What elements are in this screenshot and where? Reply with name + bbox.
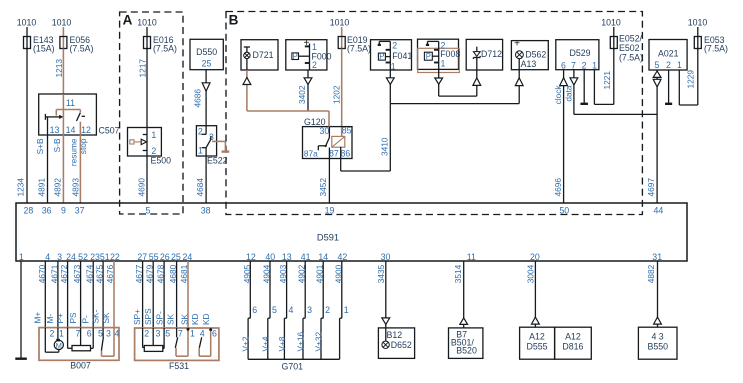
svg-text:4676: 4676 — [105, 264, 115, 283]
G120 pin 85 — [342, 126, 352, 136]
A021 pin 2 — [666, 60, 671, 70]
F531 switch KD — [199, 328, 212, 356]
D562 plus mark — [514, 38, 520, 49]
B007 motor circuit — [45, 328, 60, 353]
wire D591 pin 1 to ground — [20, 261, 22, 359]
svg-text:2: 2 — [144, 329, 149, 339]
svg-text:4697: 4697 — [646, 178, 656, 197]
pressure switch F041 box — [371, 40, 412, 70]
svg-text:3: 3 — [155, 329, 160, 339]
svg-text:D555: D555 — [526, 342, 547, 352]
svg-text:4686: 4686 — [193, 89, 203, 108]
svg-text:SK: SK — [165, 313, 175, 325]
function label P- — [80, 315, 90, 324]
function label KD a — [190, 313, 200, 325]
svg-text:4679: 4679 — [145, 264, 155, 283]
wire label 4686 — [193, 89, 203, 108]
connector arrow clock wire — [560, 78, 568, 86]
function label V+2 — [241, 336, 251, 351]
fuse E143 (15A) — [24, 35, 55, 54]
fuse E019 (7.5A) — [338, 35, 371, 54]
D591 top pin 38 — [201, 206, 211, 216]
D562 sub label A13 — [521, 59, 537, 69]
svg-text:20: 20 — [530, 252, 540, 262]
D721 lamp symbol — [244, 47, 250, 70]
D591 bottom pin 20 (21) — [530, 252, 540, 262]
F041 label — [392, 51, 412, 61]
svg-text:5: 5 — [165, 329, 170, 339]
connector D550 box — [190, 39, 223, 69]
svg-text:4690: 4690 — [137, 178, 147, 197]
dashed box A — [120, 12, 183, 214]
wire label 1202 — [332, 85, 342, 104]
wire label 4675 — [95, 264, 105, 283]
G701 pin 2 — [325, 305, 330, 315]
wire 4670 D591 to B007 — [44, 261, 46, 328]
svg-text:1010: 1010 — [137, 18, 157, 28]
C507 pin 13 — [50, 125, 60, 135]
svg-text:P: P — [379, 52, 384, 61]
svg-text:4672: 4672 — [59, 264, 69, 283]
F041 pin 2 — [392, 41, 397, 51]
svg-text:6: 6 — [87, 328, 92, 338]
F531 pin 4 — [200, 329, 205, 339]
switch C507 box — [39, 94, 120, 136]
wire D721 to relay node — [246, 70, 248, 111]
D529 pin 7 — [571, 60, 576, 70]
svg-text:24: 24 — [66, 252, 76, 262]
G701 pin 5 — [272, 305, 277, 315]
wire 4676 D591 to B007 pin 4 — [113, 261, 115, 356]
wire label 3514 — [453, 264, 463, 283]
wire 3452 G120 pin 87 to D591 pin 19 — [328, 159, 330, 204]
svg-text:KD: KD — [201, 313, 211, 325]
svg-text:D550: D550 — [196, 47, 217, 57]
F000 label — [312, 52, 332, 62]
svg-text:4: 4 — [115, 328, 120, 338]
svg-text:A: A — [123, 13, 133, 28]
lamp B12/D652 box — [378, 328, 414, 359]
G701 pin 5 jog — [268, 318, 270, 359]
G120 relay coil — [332, 136, 345, 147]
svg-text:25: 25 — [171, 252, 181, 262]
E500 internal contact — [130, 139, 147, 144]
svg-text:B: B — [229, 13, 239, 28]
svg-text:S-B: S-B — [52, 138, 62, 152]
wire label 4678 — [156, 264, 166, 283]
svg-text:3: 3 — [57, 252, 62, 262]
F000 internal symbol — [292, 44, 310, 71]
svg-text:data: data — [564, 85, 574, 102]
svg-text:25: 25 — [202, 59, 212, 69]
G701 pin 6 jog — [248, 318, 250, 359]
svg-text:1229: 1229 — [686, 70, 696, 89]
svg-text:6: 6 — [561, 60, 566, 70]
wire label 1217 — [138, 59, 148, 78]
function label S+B — [35, 138, 45, 154]
G120 pin 30 — [320, 126, 330, 136]
D591 bottom pin 24 (12) — [183, 252, 193, 262]
D529 pin 1 — [592, 60, 597, 70]
D591 bottom pin 40 (14) — [265, 252, 275, 262]
svg-text:A13: A13 — [521, 59, 537, 69]
function label resume — [68, 138, 78, 166]
svg-text:SK: SK — [179, 313, 189, 325]
unit A12/D555 box — [520, 327, 555, 359]
svg-text:V+2: V+2 — [241, 336, 251, 351]
svg-text:4674: 4674 — [85, 264, 95, 283]
wire label 4679 — [145, 264, 155, 283]
svg-text:41: 41 — [301, 252, 311, 262]
B007 pin 7 — [76, 328, 81, 338]
wire label 4673 — [72, 264, 82, 283]
F531 pin 5 — [165, 329, 170, 339]
node 1010 feed 1 — [17, 18, 37, 51]
svg-text:E500: E500 — [151, 156, 172, 166]
wire node F041 to D562 — [390, 103, 519, 105]
C507 pin 11 — [66, 98, 75, 108]
G701 pin 4 jog — [284, 318, 286, 359]
B520 label — [456, 346, 477, 356]
wire label 4891 — [37, 178, 47, 197]
svg-text:1: 1 — [344, 305, 349, 315]
svg-text:B007: B007 — [70, 361, 91, 371]
D591 top pin 50 — [559, 206, 569, 216]
wire label 3004 — [526, 264, 536, 283]
svg-text:P+: P+ — [55, 313, 65, 324]
svg-text:13: 13 — [282, 252, 292, 262]
D591 bottom pin 13 (15) — [282, 252, 292, 262]
dashed box B — [226, 12, 642, 215]
svg-text:12: 12 — [81, 125, 91, 135]
connector arrow D562 wire — [515, 78, 523, 86]
wire 4900 D591 to G701 — [341, 261, 343, 318]
G701 common bus — [248, 359, 340, 371]
D591 top pin 28 — [24, 206, 34, 216]
svg-text:1: 1 — [198, 146, 203, 156]
C507 internal wire from pin 11 — [62, 94, 64, 135]
svg-text:S+B: S+B — [35, 138, 45, 154]
F000 pin 1 — [312, 42, 317, 52]
F008 highlight box — [418, 48, 460, 72]
D591 bottom pin 26 (10) — [160, 252, 170, 262]
svg-text:42: 42 — [338, 252, 348, 262]
G701 pin 3 jog — [303, 318, 305, 359]
svg-text:1: 1 — [312, 42, 317, 52]
B007 pin 4 — [115, 328, 120, 338]
connector arrows A021 pin5 — [653, 71, 661, 87]
actuator B007 box — [39, 328, 119, 371]
svg-text:4901: 4901 — [315, 264, 325, 283]
svg-text:31: 31 — [652, 252, 662, 262]
D591 bottom pin 42 (18) — [338, 252, 348, 262]
svg-text:51: 51 — [100, 252, 110, 262]
function label V+16 — [296, 332, 306, 352]
svg-text:6: 6 — [252, 305, 257, 315]
svg-text:52: 52 — [78, 252, 88, 262]
wire 4902 D591 to G701 — [304, 261, 306, 318]
E500 pin 2 — [151, 146, 156, 156]
connector arrow D712 wire — [473, 78, 481, 86]
E500 internal wire — [146, 128, 148, 157]
svg-text:V+32: V+32 — [314, 332, 324, 352]
G120 pin 87a — [304, 148, 318, 158]
E522 pin 3 — [209, 132, 214, 142]
svg-text:3514: 3514 — [453, 264, 463, 283]
switch E522 box — [196, 126, 227, 166]
svg-text:SK-: SK- — [90, 309, 100, 323]
svg-text:26: 26 — [160, 252, 170, 262]
svg-text:E522: E522 — [207, 156, 228, 166]
svg-text:4681: 4681 — [179, 264, 189, 283]
svg-text:4904: 4904 — [262, 264, 272, 283]
control unit D591 box — [16, 203, 687, 261]
function label V+8 — [277, 336, 287, 351]
F041 internal symbol — [378, 41, 391, 70]
D529 pin 2 — [582, 60, 587, 70]
wire label 4893 — [71, 178, 81, 197]
svg-text:13: 13 — [50, 125, 60, 135]
function label SK — [179, 313, 189, 325]
D591 top pin 19 — [325, 206, 335, 216]
svg-text:40: 40 — [265, 252, 275, 262]
function label KD b — [201, 313, 211, 325]
D591 bottom pin 4 (1) — [45, 252, 50, 262]
B12 lamp symbol — [382, 328, 389, 349]
B007 motor M — [54, 340, 63, 350]
B007 pin 6 — [87, 328, 92, 338]
svg-text:B550: B550 — [648, 342, 669, 352]
C507 pin 12 — [81, 125, 91, 135]
svg-text:F041: F041 — [392, 51, 412, 61]
svg-text:14: 14 — [318, 252, 328, 262]
F041 pin 1 — [391, 61, 396, 71]
svg-text:1: 1 — [677, 60, 682, 70]
wire data D529 pin7 — [574, 70, 657, 115]
svg-text:2: 2 — [151, 146, 156, 156]
svg-text:1202: 1202 — [332, 85, 342, 104]
D712 zener diode symbol — [473, 47, 480, 70]
C507 internal brown branch — [56, 110, 80, 116]
wire label 4684 — [195, 178, 205, 197]
svg-text:9: 9 — [61, 206, 66, 216]
svg-text:D529: D529 — [569, 48, 590, 58]
F008 label — [440, 49, 460, 59]
F531 pin 1 — [190, 329, 195, 339]
D591 top pin 9 — [61, 206, 66, 216]
svg-text:55: 55 — [149, 252, 159, 262]
wire 4891 C507 pin13 to D591 pin 36 — [47, 117, 49, 203]
wire F008 to D712 node — [439, 69, 477, 96]
C507 pin 14 — [66, 125, 76, 135]
svg-text:11: 11 — [467, 252, 476, 262]
E500 pin ticks — [143, 135, 147, 151]
F531 pin 7 — [178, 329, 183, 339]
svg-text:1010: 1010 — [52, 18, 72, 28]
svg-text:E502: E502 — [619, 43, 640, 53]
B007 pin 5 — [98, 328, 103, 338]
D591 bottom pin 51 (6) — [100, 252, 110, 262]
wire 4674 D591 to B007 — [92, 261, 94, 328]
wire label 4882 — [646, 264, 656, 283]
D562 lamp symbol — [516, 51, 524, 70]
svg-text:2: 2 — [312, 60, 317, 70]
wire 4903 D591 to G701 — [286, 261, 288, 318]
E522 switch blade — [206, 136, 211, 148]
wire 4697 A021 pin5 to D591 pin 44 — [656, 70, 658, 203]
E522 pin 2 — [198, 127, 203, 137]
wire label 4903 — [278, 264, 288, 283]
connector arrow D721 wire — [243, 78, 251, 85]
svg-text:A12: A12 — [565, 331, 581, 341]
connector arrow wire 3402 — [304, 78, 312, 85]
svg-text:4680: 4680 — [168, 264, 178, 283]
svg-text:4 3: 4 3 — [651, 331, 663, 341]
B007 pin 2 — [49, 328, 54, 338]
function label stop — [78, 138, 88, 154]
connector arrow wire 4882 — [654, 317, 662, 324]
wire label 4696 — [553, 178, 563, 197]
D562 label — [525, 49, 546, 59]
wire label 4676 — [105, 264, 115, 283]
svg-text:23: 23 — [90, 252, 100, 262]
svg-text:1010: 1010 — [601, 18, 621, 28]
svg-text:7: 7 — [178, 329, 183, 339]
svg-text:B12: B12 — [387, 330, 403, 340]
node 1010 feed 5 — [601, 18, 621, 51]
B007 switch SK — [101, 328, 114, 357]
svg-text:C507: C507 — [99, 126, 120, 136]
svg-text:KD: KD — [190, 313, 200, 325]
D591 bottom pin 23 (5) — [90, 252, 100, 262]
wire 3004 D591 pin 20 to A12 — [534, 261, 536, 327]
fuse E016 (7.5A) — [144, 35, 178, 54]
function label SP+ — [132, 309, 142, 325]
unit B7/B501/B520 box — [449, 328, 483, 359]
D591 top pin 44 — [654, 206, 664, 216]
fuse E056 (7.5A) — [60, 35, 94, 54]
D591 bottom pin 3 (2) — [57, 252, 62, 262]
wire label 1234 — [16, 178, 26, 197]
wire label 4904 — [262, 264, 272, 283]
wire 4696 D529 pin6 to D591 pin 50 — [563, 70, 565, 203]
svg-text:2: 2 — [392, 41, 397, 51]
function label SK — [101, 312, 111, 324]
wire 4678 D591 to F531 — [163, 261, 165, 328]
D591 bottom pin 11 (20) — [467, 252, 476, 262]
svg-text:3410: 3410 — [379, 137, 389, 156]
svg-text:1: 1 — [441, 59, 446, 69]
svg-text:clock: clock — [553, 85, 563, 105]
svg-text:1: 1 — [190, 329, 195, 339]
wire label 1213 — [54, 59, 64, 78]
wire 4893 C507 pin12 to D591 pin 37 — [79, 122, 81, 203]
indicator D721 box — [241, 40, 278, 70]
svg-text:5: 5 — [98, 328, 103, 338]
node 1010 feed 2 — [52, 18, 72, 51]
svg-text:44: 44 — [654, 206, 664, 216]
function label M- — [45, 314, 55, 324]
svg-text:12: 12 — [246, 252, 256, 262]
wire 4673 D591 to B007 — [80, 261, 82, 328]
D591 bottom pin 27 (8) — [137, 252, 147, 262]
function label SP- — [155, 311, 165, 325]
wire D721/F000 node to G120 pin 30 — [247, 111, 329, 127]
function label PS — [68, 312, 78, 324]
node 1010 feed 3 — [137, 18, 157, 51]
svg-text:5: 5 — [654, 60, 659, 70]
svg-text:3452: 3452 — [318, 178, 328, 197]
F531 pin 2 — [144, 329, 149, 339]
svg-text:19: 19 — [325, 206, 335, 216]
svg-text:2: 2 — [198, 127, 203, 137]
svg-text:86: 86 — [341, 148, 351, 158]
svg-text:11: 11 — [66, 98, 75, 108]
svg-text:7: 7 — [76, 328, 81, 338]
B501 label — [451, 338, 475, 348]
svg-text:4893: 4893 — [71, 178, 81, 197]
D591 bottom pin 41 (16) — [301, 252, 311, 262]
wire D712 input — [476, 70, 478, 96]
svg-text:1: 1 — [19, 252, 24, 262]
wire label 4697 — [646, 178, 656, 197]
relay G120 box — [303, 127, 353, 159]
svg-text:D562: D562 — [525, 49, 546, 59]
node 1010 feed 4 — [330, 18, 350, 51]
svg-text:3402: 3402 — [297, 85, 307, 104]
D652 label — [391, 340, 412, 350]
wire 3435 D591 pin 30 to B12 — [385, 261, 387, 328]
svg-text:4: 4 — [200, 329, 205, 339]
svg-text:50: 50 — [559, 206, 569, 216]
wire label 4901 — [315, 264, 325, 283]
wire label 4902 — [297, 264, 307, 283]
F531 switch SK — [175, 328, 189, 356]
function label V+4 — [260, 336, 270, 351]
svg-text:4902: 4902 — [297, 264, 307, 283]
G701 pin 1 jog — [340, 318, 342, 359]
svg-text:D591: D591 — [317, 233, 339, 243]
svg-text:V+4: V+4 — [260, 336, 270, 351]
svg-text:G701: G701 — [282, 361, 304, 371]
svg-text:87a: 87a — [304, 148, 318, 158]
connector arrow wire 3435 — [382, 318, 390, 325]
D591 bottom pin 31 (22) — [652, 252, 662, 262]
node 1010 feed 6 — [688, 18, 708, 51]
wire label 1229 — [686, 70, 696, 89]
wire label 3410 — [379, 137, 389, 156]
wire label 4672 — [59, 264, 69, 283]
ground D529 pin 2 — [580, 70, 588, 104]
connector arrow data wire — [570, 78, 578, 85]
connector arrow on wire 4686 — [202, 83, 210, 91]
svg-text:87: 87 — [329, 148, 339, 158]
A021 pin 1 — [677, 60, 682, 70]
G120 pin 86 — [341, 148, 351, 158]
wire 4677 D591 to F531 — [142, 261, 144, 328]
D591 bottom pin 55 (9) — [149, 252, 159, 262]
wire 4672 D591 to B007 — [67, 261, 69, 328]
wire 4892 C507 pin14 to D591 pin 9 — [62, 135, 64, 203]
G701 pin 3 — [307, 305, 312, 315]
wire 1217 E016 to E500 — [146, 49, 148, 128]
wire 4882 D591 pin 31 to B550 — [657, 261, 659, 327]
function label SK — [165, 313, 175, 325]
wire 4904 D591 to G701 — [269, 261, 271, 318]
svg-text:4882: 4882 — [646, 264, 656, 283]
svg-text:1010: 1010 — [688, 18, 708, 28]
switch E500 box — [128, 128, 172, 166]
